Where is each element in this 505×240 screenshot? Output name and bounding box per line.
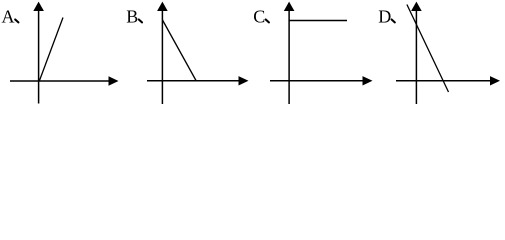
svg-text:B: B [126, 7, 138, 27]
graph A y-axis [33, 2, 44, 104]
graph C x-axis [270, 76, 373, 85]
graph D x-axis [396, 76, 500, 85]
graph D y-axis [411, 2, 422, 104]
svg-text:C: C [253, 7, 265, 27]
graph B x-axis [147, 76, 249, 85]
graph B line (negative slope from y-axis to x-axis) [163, 20, 197, 81]
graph C y-axis [284, 2, 295, 104]
graph D line (negative slope crossing both axes) [407, 5, 449, 93]
option label C [253, 7, 269, 27]
graph A line (positive slope through origin) [40, 18, 64, 81]
graph C line (horizontal constant value) [289, 20, 347, 22]
option label D [378, 7, 395, 27]
graph B y-axis [157, 2, 168, 104]
option label B [126, 7, 142, 27]
svg-text:A: A [2, 7, 15, 27]
option label A [2, 7, 19, 27]
graph A x-axis [10, 76, 119, 85]
svg-text:D: D [378, 7, 391, 27]
